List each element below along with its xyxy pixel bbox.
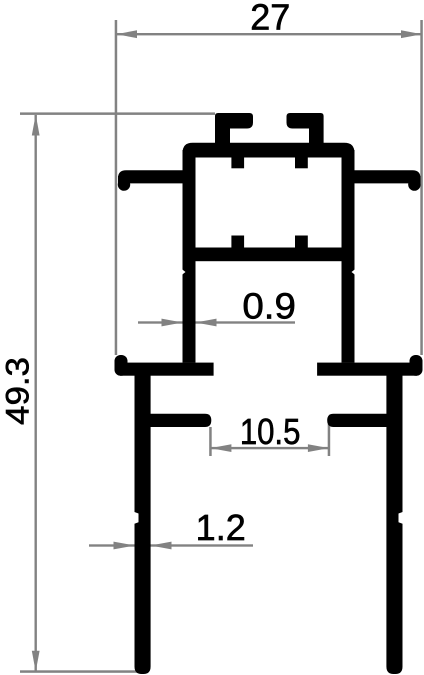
arrow 0.9 right (points left at wall) xyxy=(196,319,217,327)
profile: inner tab top-right xyxy=(295,156,308,168)
arrow 1.2 right (points left at leg) xyxy=(151,542,172,550)
profile: right arm xyxy=(353,170,421,183)
profile: inner tab top-left xyxy=(231,156,244,168)
extension line right (27) xyxy=(420,20,423,355)
svg-text:27: 27 xyxy=(250,0,290,38)
profile: right wall xyxy=(342,150,355,363)
profile: left wall notch xyxy=(182,269,186,275)
profile: box top plate xyxy=(183,143,355,158)
arrow right 10.5 xyxy=(308,444,329,452)
extension line right (10.5) xyxy=(328,424,331,456)
arrow 0.9 left (points right at wall) xyxy=(162,319,183,327)
profile: right leg notch xyxy=(399,512,403,524)
arrow right 27 xyxy=(401,30,422,38)
extension line bottom (49.3) xyxy=(20,670,140,673)
profile: left arm ball xyxy=(118,178,130,190)
arrow left 10.5 xyxy=(210,444,231,452)
svg-text:1.2: 1.2 xyxy=(196,507,246,548)
extension line left (10.5) xyxy=(209,427,212,456)
dimension line 0.9 xyxy=(138,321,295,323)
profile: box bottom plate xyxy=(183,248,355,262)
profile: right arm ball xyxy=(408,178,420,190)
svg-text:49.3: 49.3 xyxy=(1,357,37,425)
profile: inner tab bottom-left xyxy=(231,236,244,249)
profile: right leg xyxy=(386,375,402,674)
profile: left arm xyxy=(118,170,184,183)
profile: left leg xyxy=(135,375,151,674)
profile: left top hook xyxy=(215,113,253,145)
profile: left wall xyxy=(183,150,196,363)
dimension line 1.2 xyxy=(89,544,253,546)
extension line top (49.3) xyxy=(20,112,215,115)
profile: left leg notch xyxy=(134,512,138,524)
profile: inner tab bottom-right xyxy=(295,236,308,249)
arrow left 27 xyxy=(116,30,137,38)
profile: right wing with ball xyxy=(410,355,423,376)
profile: left wing with ball xyxy=(115,355,128,376)
profile: right wall notch xyxy=(352,269,356,275)
extension line left (27) xyxy=(115,20,118,355)
profile: left shelf xyxy=(149,414,211,427)
arrow up 49.3 xyxy=(32,115,40,136)
svg-text:10.5: 10.5 xyxy=(240,413,301,453)
profile: right shelf xyxy=(327,414,388,427)
profile: right top hook xyxy=(287,113,324,145)
dimension line 49.3 xyxy=(35,115,37,672)
arrow down 49.3 xyxy=(32,651,40,672)
arrow 1.2 left (points right at leg) xyxy=(114,542,135,550)
dimension line 27 xyxy=(116,33,422,35)
dimension line 10.5 xyxy=(210,447,329,449)
svg-text:0.9: 0.9 xyxy=(242,286,296,327)
